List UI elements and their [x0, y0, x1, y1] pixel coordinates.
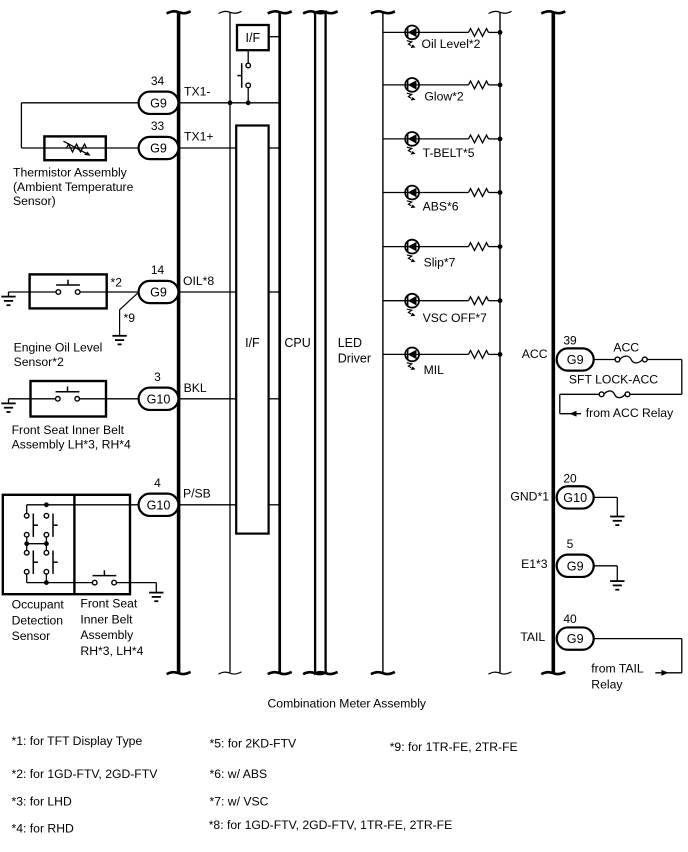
svg-text:Sensor): Sensor) — [13, 194, 56, 208]
svg-text:40: 40 — [563, 612, 577, 626]
svg-text:Combination Meter Assembly: Combination Meter Assembly — [268, 697, 427, 711]
svg-text:Occupant: Occupant — [12, 598, 65, 612]
svg-text:Relay: Relay — [591, 678, 623, 692]
svg-text:33: 33 — [151, 119, 165, 133]
svg-text:P/SB: P/SB — [183, 487, 211, 501]
svg-text:Thermistor Assembly: Thermistor Assembly — [13, 166, 128, 180]
svg-text:I/F: I/F — [246, 31, 261, 45]
svg-text:G9: G9 — [150, 142, 167, 156]
svg-text:G10: G10 — [563, 491, 587, 505]
svg-text:*7: w/ VSC: *7: w/ VSC — [210, 794, 269, 808]
svg-text:LED: LED — [338, 336, 362, 350]
svg-text:*5: for 2KD-FTV: *5: for 2KD-FTV — [210, 737, 298, 751]
svg-text:CPU: CPU — [284, 336, 310, 350]
svg-text:ACC: ACC — [613, 341, 639, 355]
svg-text:*2: *2 — [111, 275, 123, 289]
svg-text:*9: for 1TR-FE, 2TR-FE: *9: for 1TR-FE, 2TR-FE — [390, 740, 518, 754]
svg-text:Driver: Driver — [338, 352, 371, 366]
svg-text:34: 34 — [151, 74, 165, 88]
svg-text:Assembly: Assembly — [80, 628, 134, 642]
svg-text:20: 20 — [563, 471, 577, 485]
svg-text:OIL*8: OIL*8 — [183, 274, 214, 288]
svg-text:ACC: ACC — [522, 347, 548, 361]
svg-text:Sensor*2: Sensor*2 — [14, 355, 64, 369]
svg-text:RH*3, LH*4: RH*3, LH*4 — [80, 644, 143, 658]
svg-text:Glow*2: Glow*2 — [424, 89, 464, 103]
svg-text:G9: G9 — [150, 286, 167, 300]
svg-text:*1: for TFT Display Type: *1: for TFT Display Type — [12, 734, 143, 748]
svg-text:G9: G9 — [567, 632, 584, 646]
svg-text:5: 5 — [567, 537, 574, 551]
svg-text:G9: G9 — [150, 96, 167, 110]
svg-text:Oil Level*2: Oil Level*2 — [422, 37, 481, 51]
svg-text:GND*1: GND*1 — [510, 490, 549, 504]
svg-text:*8: for 1GD-FTV, 2GD-FTV, 1TR-: *8: for 1GD-FTV, 2GD-FTV, 1TR-FE, 2TR-FE — [209, 818, 453, 832]
svg-text:TX1-: TX1- — [184, 84, 210, 98]
svg-text:Engine Oil Level: Engine Oil Level — [14, 341, 103, 355]
svg-text:TX1+: TX1+ — [184, 130, 213, 144]
svg-text:Sensor: Sensor — [12, 629, 51, 643]
svg-text:Assembly LH*3, RH*4: Assembly LH*3, RH*4 — [12, 438, 131, 452]
svg-text:TAIL: TAIL — [520, 630, 545, 644]
svg-text:39: 39 — [563, 333, 577, 347]
svg-text:Front Seat Inner Belt: Front Seat Inner Belt — [12, 423, 125, 437]
svg-text:*6: w/ ABS: *6: w/ ABS — [210, 767, 268, 781]
svg-text:*2: for 1GD-FTV, 2GD-FTV: *2: for 1GD-FTV, 2GD-FTV — [12, 767, 159, 781]
svg-text:14: 14 — [151, 263, 165, 277]
svg-text:*4: for RHD: *4: for RHD — [12, 821, 75, 835]
svg-text:G10: G10 — [147, 498, 171, 512]
svg-text:*3: for LHD: *3: for LHD — [12, 794, 72, 808]
svg-text:Slip*7: Slip*7 — [424, 255, 456, 269]
svg-text:from ACC Relay: from ACC Relay — [586, 406, 674, 420]
svg-text:Inner Belt: Inner Belt — [80, 612, 133, 626]
svg-text:(Ambient Temperature: (Ambient Temperature — [13, 180, 134, 194]
svg-text:from TAIL: from TAIL — [591, 662, 644, 676]
svg-text:G9: G9 — [567, 559, 584, 573]
svg-text:SFT LOCK-ACC: SFT LOCK-ACC — [569, 373, 658, 387]
svg-text:Front Seat: Front Seat — [80, 597, 138, 611]
svg-text:*9: *9 — [124, 311, 136, 325]
svg-text:T-BELT*5: T-BELT*5 — [423, 146, 475, 160]
svg-text:BKL: BKL — [184, 381, 207, 395]
svg-text:ABS*6: ABS*6 — [423, 200, 459, 214]
svg-text:4: 4 — [154, 476, 161, 490]
svg-text:Detection: Detection — [12, 613, 64, 627]
svg-text:G10: G10 — [147, 392, 171, 406]
svg-text:VSC OFF*7: VSC OFF*7 — [423, 311, 488, 325]
svg-text:I/F: I/F — [245, 336, 260, 350]
svg-text:E1*3: E1*3 — [521, 557, 548, 571]
svg-text:3: 3 — [154, 370, 161, 384]
svg-text:G9: G9 — [567, 353, 584, 367]
svg-text:MIL: MIL — [424, 363, 445, 377]
